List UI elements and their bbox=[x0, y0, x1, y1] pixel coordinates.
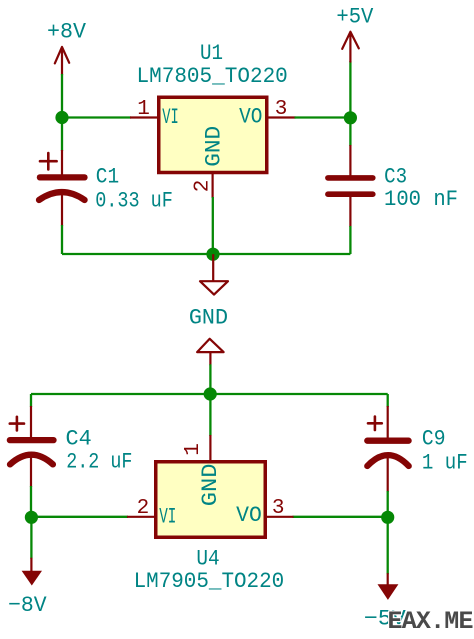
svg-text:2.2 uF: 2.2 uF bbox=[66, 449, 132, 474]
capacitor C4 top pin bbox=[30, 406, 32, 440]
svg-text:C4: C4 bbox=[66, 427, 92, 452]
svg-text:−8V: −8V bbox=[8, 593, 47, 618]
svg-text:VI: VI bbox=[162, 105, 179, 130]
svg-text:0.33 uF: 0.33 uF bbox=[95, 188, 173, 213]
svg-text:VO: VO bbox=[236, 503, 262, 528]
wire left rail down to C4 bbox=[30, 394, 32, 407]
wire node E to U4 pin 2 bbox=[31, 516, 128, 518]
U4 pin 3 stub bbox=[265, 516, 294, 518]
capacitor C1 top pin bbox=[61, 150, 63, 177]
node A junction (input rail, top-left) bbox=[55, 111, 68, 124]
capacitor C1 negative plate (arc) bbox=[39, 192, 85, 200]
power flag +8V arrow symbol bbox=[55, 47, 69, 75]
svg-text:+8V: +8V bbox=[47, 19, 87, 44]
ground GND1 stem bbox=[212, 254, 214, 281]
svg-text:U1: U1 bbox=[200, 41, 223, 66]
wire node E down to -8V bbox=[30, 517, 32, 558]
ground GND2 stem bbox=[209, 352, 211, 365]
svg-text:LM7905_TO220: LM7905_TO220 bbox=[134, 569, 285, 594]
svg-text:GND: GND bbox=[189, 305, 228, 330]
capacitor C4 positive plate bbox=[10, 437, 54, 443]
svg-text:C3: C3 bbox=[384, 165, 407, 190]
capacitor C3 top pin bbox=[349, 145, 351, 177]
wire U1 pin 3 to node B bbox=[295, 116, 351, 118]
power flag -5V stem bbox=[387, 573, 389, 586]
wire C1 to bottom rail bbox=[61, 225, 63, 254]
wire U4 pin 3 to node F bbox=[293, 516, 388, 518]
svg-text:3: 3 bbox=[272, 497, 285, 520]
wire top rail (bottom circuit) bbox=[31, 393, 388, 395]
capacitor C9 polarity plus bbox=[368, 417, 382, 431]
wire bottom rail (top circuit) bbox=[62, 253, 350, 255]
svg-text:1 uF: 1 uF bbox=[422, 450, 468, 475]
wire +8V stem to node A bbox=[61, 74, 63, 113]
power flag -8V arrow (filled) bbox=[22, 571, 42, 586]
svg-text:2: 2 bbox=[137, 497, 150, 520]
wire C9 to node F bbox=[387, 491, 389, 517]
capacitor C9 negative plate (arc) bbox=[367, 455, 408, 466]
U4 pin 1 stub bbox=[209, 435, 211, 462]
svg-text:VO: VO bbox=[239, 105, 262, 130]
svg-text:1: 1 bbox=[182, 443, 205, 456]
node C junction (bottom rail, top circuit) bbox=[206, 248, 219, 261]
svg-text:C9: C9 bbox=[422, 427, 446, 452]
wire node F down to -5V bbox=[387, 517, 389, 574]
svg-text:GND: GND bbox=[202, 126, 227, 167]
node F junction (bottom-right) bbox=[381, 511, 394, 524]
U1 pin 1 stub bbox=[130, 116, 158, 118]
U1 pin 3 stub bbox=[267, 116, 296, 118]
svg-text:3: 3 bbox=[275, 98, 288, 121]
op-amp U4 body LM7905_TO220 bbox=[156, 462, 266, 538]
power flag -8V stem bbox=[30, 558, 32, 572]
capacitor C3 plate 1 bbox=[328, 175, 373, 181]
svg-text:1: 1 bbox=[137, 98, 150, 121]
wire top rail down to C9 bbox=[387, 394, 389, 407]
ground GND1 triangle (down) bbox=[200, 281, 228, 294]
wire pin 2 to node C bbox=[212, 197, 214, 254]
node B junction (output rail, top-right) bbox=[344, 111, 357, 124]
svg-text:LM7805_TO220: LM7805_TO220 bbox=[137, 64, 288, 89]
capacitor C9 positive plate bbox=[367, 438, 408, 444]
capacitor C3 plate 2 bbox=[328, 191, 373, 197]
node D junction (top rail, bottom circuit) bbox=[204, 387, 217, 400]
capacitor C4 negative plate (arc) bbox=[10, 455, 53, 465]
capacitor C1 bottom pin bbox=[61, 192, 63, 226]
svg-text:2: 2 bbox=[192, 180, 215, 193]
capacitor C4 bottom pin bbox=[30, 455, 32, 487]
capacitor C3 bottom pin bbox=[349, 194, 351, 227]
wire C4 to node E bbox=[30, 486, 32, 517]
svg-text:+5V: +5V bbox=[336, 5, 374, 30]
wire node A down to capacitor C1 bbox=[61, 118, 63, 152]
svg-text:C1: C1 bbox=[96, 165, 119, 190]
node E junction (bottom-left) bbox=[25, 511, 38, 524]
capacitor C4 polarity plus bbox=[10, 417, 24, 431]
capacitor C9 bottom pin bbox=[387, 457, 389, 492]
capacitor C9 top pin bbox=[387, 406, 389, 440]
wire node B up to +5V bbox=[349, 61, 351, 113]
wire node B down to capacitor C3 bbox=[349, 118, 351, 146]
wire C3 to bottom rail bbox=[349, 226, 351, 254]
wire node A to U1 pin 1 bbox=[62, 116, 131, 118]
U4 pin 2 stub bbox=[127, 516, 155, 518]
capacitor C1 positive plate bbox=[40, 174, 85, 180]
svg-text:EAX.ME: EAX.ME bbox=[388, 607, 473, 634]
svg-text:VI: VI bbox=[159, 504, 176, 529]
wire U4 pin 1 from node D bbox=[209, 394, 211, 436]
svg-text:100 nF: 100 nF bbox=[384, 187, 458, 212]
op-amp U1 body LM7805_TO220 bbox=[159, 97, 267, 172]
capacitor C1 polarity plus bbox=[40, 153, 57, 169]
wire U1 pin 2 stem bbox=[212, 172, 214, 198]
power flag +5V arrow symbol bbox=[342, 32, 359, 62]
power flag -5V arrow (filled) bbox=[378, 584, 399, 600]
wire GND2 to node D bbox=[209, 364, 211, 394]
svg-text:U4: U4 bbox=[196, 546, 219, 571]
ground GND2 triangle (up) bbox=[197, 339, 224, 352]
svg-text:GND: GND bbox=[198, 464, 223, 507]
